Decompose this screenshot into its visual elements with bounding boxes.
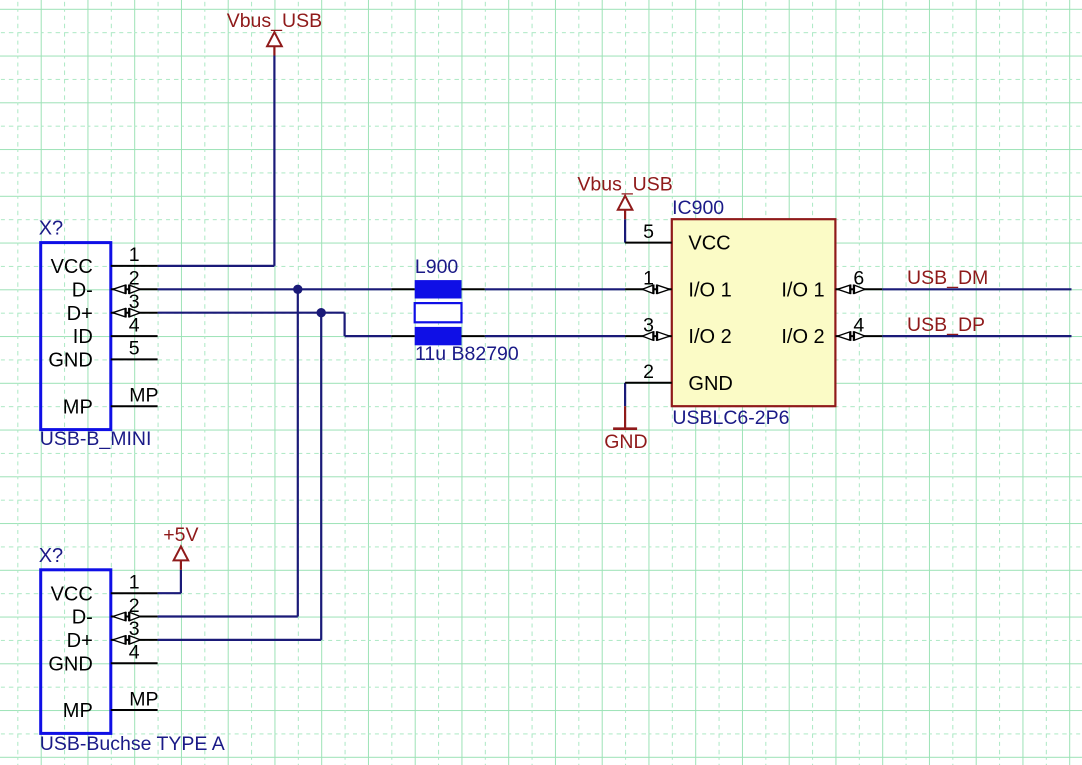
svg-text:3: 3 (643, 314, 654, 336)
pin name I/O 1 (left) of IC900 (688, 279, 731, 301)
svg-text:GND: GND (688, 373, 732, 395)
pin name GND of X?2 (48, 653, 92, 675)
net label USB_DM (907, 267, 988, 289)
pin name GND (left) of IC900 (688, 373, 732, 395)
svg-text:4: 4 (129, 642, 140, 664)
svg-text:GND: GND (48, 350, 92, 372)
pin label MP of X?1 (129, 385, 158, 407)
svg-text:D+: D+ (67, 630, 93, 652)
choke L900 winding 2 (bottom bar) (415, 327, 462, 345)
svg-text:I/O 1: I/O 1 (781, 279, 824, 301)
svg-text:2: 2 (643, 361, 654, 383)
svg-text:I/O 2: I/O 2 (781, 326, 824, 348)
junction D+ net (317, 308, 326, 317)
pin 3 (D+) of X?1 (111, 308, 158, 318)
wire choke L900 pin2 to IC900 pin1 (I/O 1) (485, 288, 625, 290)
pin number 3 of X?1 (129, 291, 140, 313)
power Vbus_USB (at IC900) (577, 174, 672, 220)
pin number 5 of IC900 (643, 221, 654, 243)
pin 5 (GND) of X?1 (111, 358, 158, 360)
svg-text:11u B82790: 11u B82790 (415, 343, 519, 365)
pin MP (MP) of X?1 (111, 405, 158, 407)
svg-text:VCC: VCC (51, 256, 93, 278)
pin 3 (D+) of X?2 (111, 635, 158, 645)
pin 5 (VCC) of IC900 (625, 242, 672, 244)
pin number 4 of IC900 (853, 314, 864, 336)
pin name VCC (left) of IC900 (688, 233, 730, 255)
svg-text:VCC: VCC (51, 583, 93, 605)
svg-text:5: 5 (643, 221, 654, 243)
IC U1 body (IC900 USBLC6-2P6) (672, 219, 836, 406)
refdes L900 (415, 256, 459, 278)
pin name MP of X?1 (63, 396, 93, 418)
pin number 1 of X?1 (129, 244, 140, 266)
svg-text:GND: GND (48, 653, 92, 675)
pin number 5 of X?1 (129, 338, 140, 360)
pin 1 (I/O 1) of IC900 (625, 285, 672, 295)
svg-text:D-: D- (72, 607, 93, 629)
svg-text:1: 1 (643, 268, 654, 290)
svg-text:3: 3 (129, 618, 140, 640)
net label USB_DP (907, 314, 985, 336)
choke L900 core (open rectangle) (415, 303, 462, 322)
svg-text:MP: MP (63, 396, 93, 418)
pin number 1 of X?2 (129, 572, 140, 594)
pin number 2 of X?1 (129, 268, 140, 290)
svg-text:2: 2 (129, 595, 140, 617)
pin label MP of X?2 (129, 688, 158, 710)
svg-text:I/O 2: I/O 2 (688, 326, 731, 348)
value label USB-B_MINI (40, 428, 152, 450)
svg-text:1: 1 (129, 244, 140, 266)
svg-text:USB-B_MINI: USB-B_MINI (40, 428, 152, 450)
wire IC900 pin5 to Vbus_USB riser (624, 219, 626, 242)
pin 4 (GND) of X?2 (111, 662, 158, 664)
pin name D- of X?1 (72, 279, 93, 301)
svg-text:+5V: +5V (163, 524, 198, 546)
power Vbus_USB (top left) (227, 10, 322, 56)
power +5V (at X?2) (163, 524, 198, 570)
pin MP (MP) of X?2 (111, 709, 158, 711)
junction D- net (293, 285, 302, 294)
pin 2 (D-) of X?2 (111, 612, 158, 622)
pin name I/O 2 (right) of IC900 (781, 326, 824, 348)
svg-text:I/O 1: I/O 1 (688, 279, 731, 301)
pin 1 (VCC) of X?1 (111, 265, 158, 267)
ground GND symbol (604, 406, 647, 453)
svg-text:2: 2 (129, 268, 140, 290)
wire VCC net: connector X?1 pin1 to Vbus_USB riser (158, 56, 275, 266)
svg-text:Vbus_USB: Vbus_USB (577, 174, 672, 196)
pin 2 (D-) of X?1 (111, 285, 158, 295)
pin name I/O 1 (right) of IC900 (781, 279, 824, 301)
svg-text:4: 4 (129, 314, 140, 336)
svg-text:USBLC6-2P6: USBLC6-2P6 (672, 407, 789, 429)
pin 4 (ID) of X?1 (111, 335, 158, 337)
svg-text:MP: MP (129, 688, 158, 710)
svg-text:D-: D- (72, 279, 93, 301)
svg-text:GND: GND (604, 431, 647, 453)
svg-text:D+: D+ (67, 303, 93, 325)
svg-text:1: 1 (129, 572, 140, 594)
svg-text:IC900: IC900 (672, 197, 724, 219)
svg-text:MP: MP (63, 700, 93, 722)
wire net USB_DM from IC900 pin6 (882, 288, 1071, 290)
pin number 3 of X?2 (129, 618, 140, 640)
pin number 4 of X?2 (129, 642, 140, 664)
pin number 4 of X?1 (129, 314, 140, 336)
value label USB-Buchse TYPE A (40, 733, 225, 755)
wire D+ net: X?1 pin3 toward choke with jog (158, 313, 392, 336)
svg-text:Vbus_USB: Vbus_USB (227, 10, 322, 32)
wire net USB_DP from IC900 pin4 (882, 335, 1071, 337)
wire +5V net: X?2 pin1 riser (158, 570, 181, 593)
value label USBLC6-2P6 (672, 407, 789, 429)
pin 2 (GND) of IC900 (625, 382, 672, 384)
wire D- net: vertical drop to connector X?2 (158, 289, 298, 616)
pin name D+ of X?1 (67, 303, 93, 325)
wire IC900 pin2 to GND (624, 383, 626, 406)
svg-text:X?: X? (39, 218, 63, 240)
pin stubs of choke L900 (391, 289, 485, 336)
pin name MP of X?2 (63, 700, 93, 722)
pin number 1 of IC900 (643, 268, 654, 290)
pin 1 (VCC) of X?2 (111, 592, 158, 594)
connector X?2 body (USB-Buchse TYPE A) (41, 570, 111, 734)
pin name ID of X?1 (73, 326, 93, 348)
svg-text:MP: MP (129, 385, 158, 407)
pin name GND of X?1 (48, 350, 92, 372)
svg-text:3: 3 (129, 291, 140, 313)
svg-text:ID: ID (73, 326, 93, 348)
svg-text:USB_DP: USB_DP (907, 314, 985, 336)
svg-text:VCC: VCC (688, 233, 730, 255)
pin 6 (I/O 1) of IC900 (836, 285, 883, 295)
svg-text:USB-Buchse TYPE A: USB-Buchse TYPE A (40, 733, 225, 755)
svg-text:L900: L900 (415, 256, 459, 278)
pin number 3 of IC900 (643, 314, 654, 336)
connector X?1 body (USB-B_MINI) (41, 243, 111, 430)
pin number 2 of X?2 (129, 595, 140, 617)
pin name D- of X?2 (72, 607, 93, 629)
wire D- net: X?1 pin2 to choke L900 pin 1 (158, 288, 392, 290)
wire D+ net: vertical drop to connector X?2 (158, 313, 322, 640)
pin name VCC of X?2 (51, 583, 93, 605)
choke L900 winding 1 (top bar) (415, 280, 462, 298)
svg-text:4: 4 (853, 314, 864, 336)
pin number 6 of IC900 (853, 268, 864, 290)
pin name D+ of X?2 (67, 630, 93, 652)
refdes IC900 (672, 197, 724, 219)
pin name VCC of X?1 (51, 256, 93, 278)
wire choke L900 pin4 to IC900 pin3 (I/O 2) (485, 335, 625, 337)
pin number 2 of IC900 (643, 361, 654, 383)
refdes X? (connector 1) (39, 218, 63, 240)
svg-text:USB_DM: USB_DM (907, 267, 988, 289)
pin 3 (I/O 2) of IC900 (625, 331, 672, 341)
svg-text:5: 5 (129, 338, 140, 360)
svg-text:6: 6 (853, 268, 864, 290)
refdes X? (connector 2) (39, 545, 63, 567)
pin name I/O 2 (left) of IC900 (688, 326, 731, 348)
svg-text:X?: X? (39, 545, 63, 567)
pin 4 (I/O 2) of IC900 (836, 331, 883, 341)
value label 11u B82790 (415, 343, 519, 365)
